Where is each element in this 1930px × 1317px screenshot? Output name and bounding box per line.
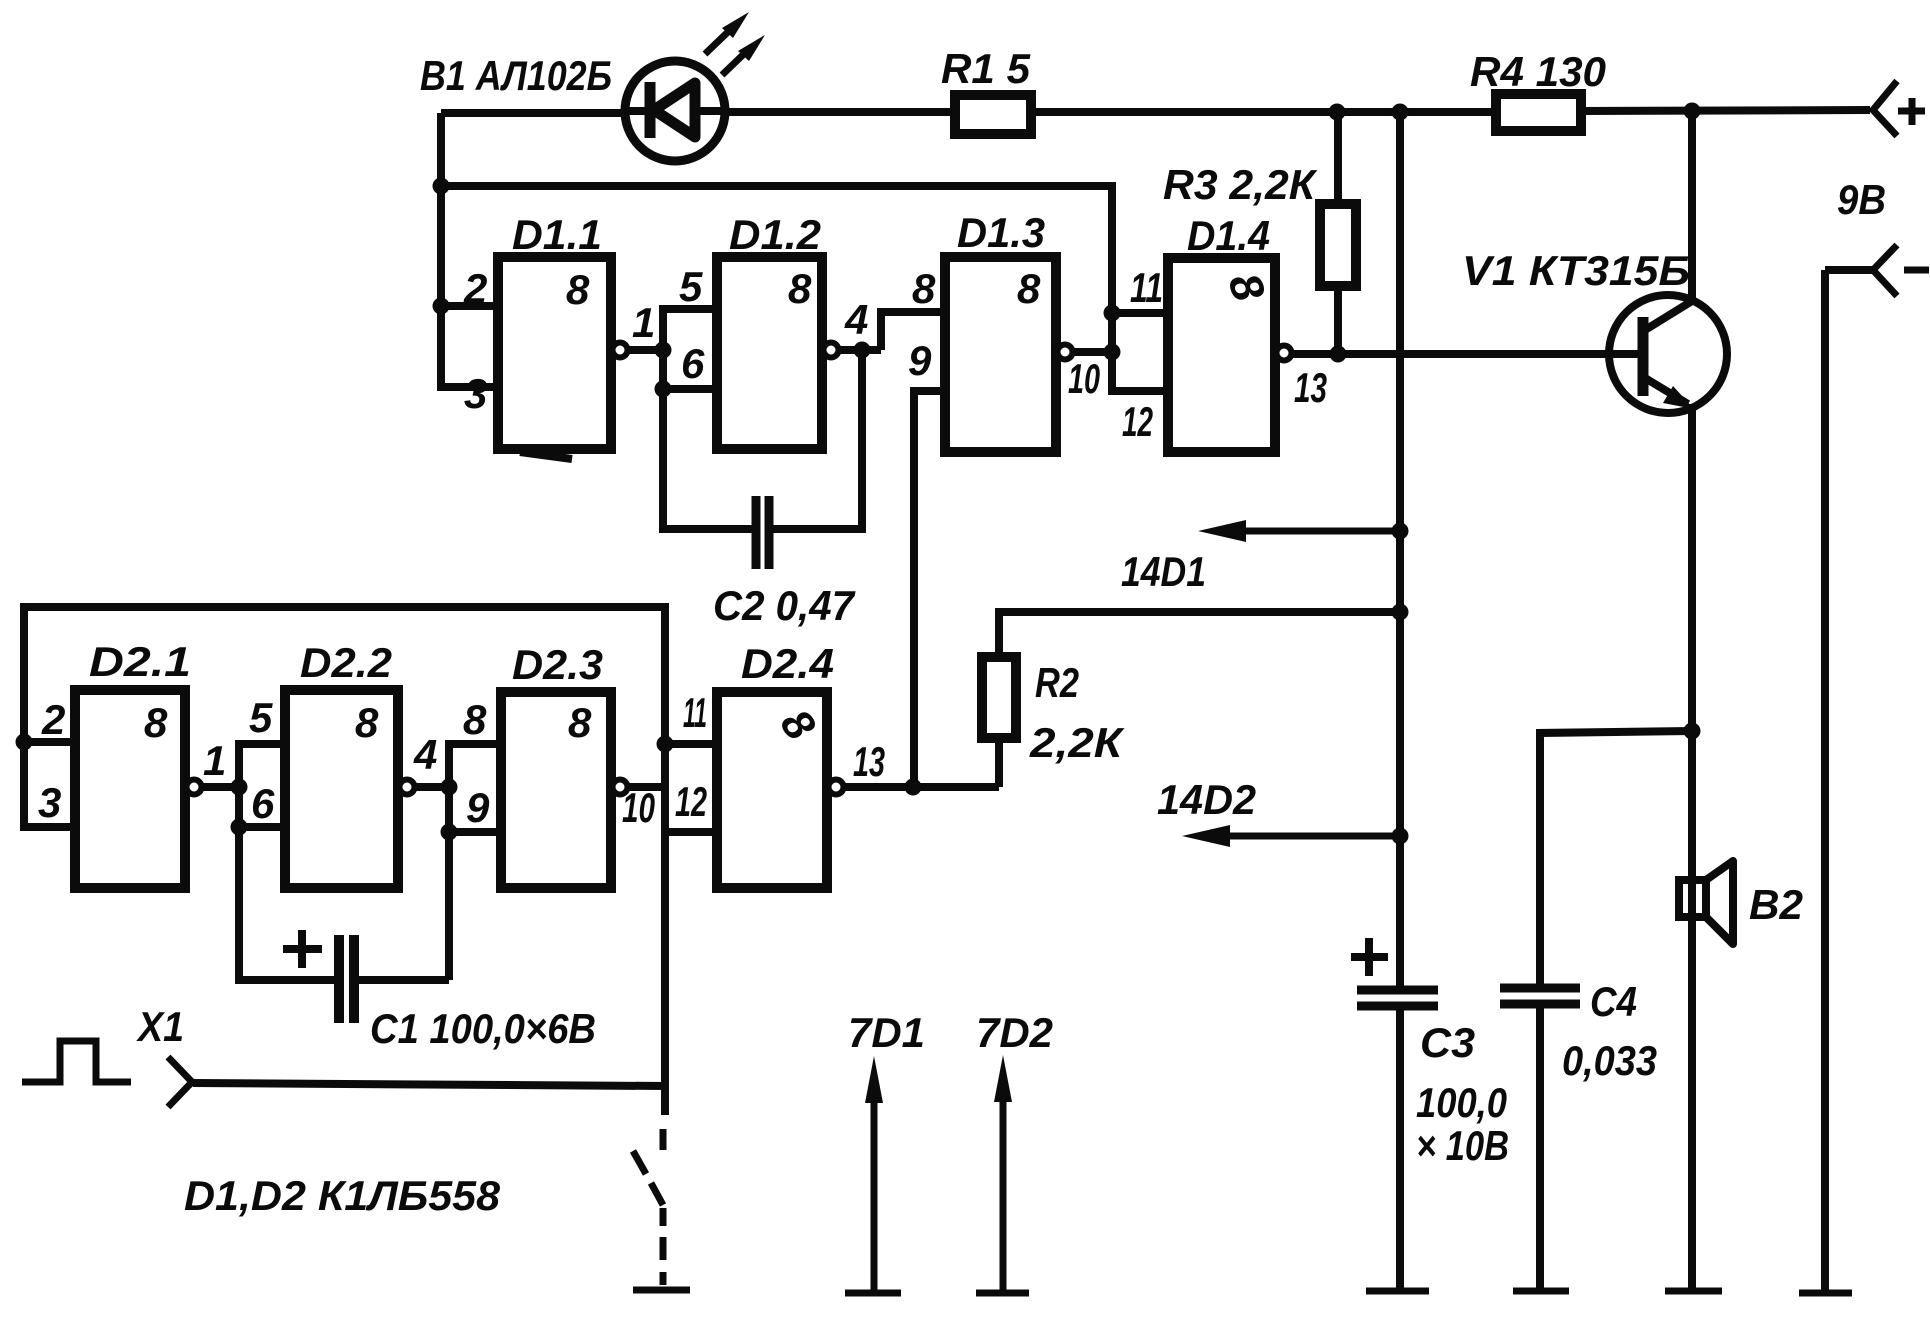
svg-text:8: 8 (566, 266, 590, 313)
LED B1 diode triangle (654, 83, 695, 137)
feedback bus D2 row with vertical to switch (24, 607, 665, 1115)
wire C2 right up to node4 (773, 350, 862, 529)
node dot R3 bottom (1330, 346, 1347, 363)
svg-text:2: 2 (41, 696, 65, 743)
svg-text:4: 4 (844, 296, 868, 343)
speaker B2 horn (1706, 861, 1733, 944)
wire C4 top to emitter line (1540, 731, 1692, 988)
bottom bar 7D2 (976, 1290, 1029, 1297)
long vertical 14D line (1396, 112, 1404, 988)
node dot R3 top (1329, 104, 1346, 121)
svg-text:100,0: 100,0 (1416, 1079, 1507, 1126)
svg-text:C4: C4 (1590, 978, 1637, 1025)
left bus D1 with pin3 stub (441, 113, 498, 387)
svg-text:9: 9 (908, 337, 932, 384)
bottom bar C4 (1513, 1288, 1569, 1295)
wire second rail to D1.4 pin 12 (441, 186, 1168, 391)
capacitor C2 plates (752, 496, 761, 569)
svg-text:9В: 9В (1837, 176, 1886, 223)
gate D2.3 (501, 692, 611, 888)
svg-text:D1,D2 К1ЛБ558: D1,D2 К1ЛБ558 (184, 1172, 501, 1219)
node dot pin6 D2 (231, 819, 248, 836)
svg-text:14D2: 14D2 (1157, 776, 1256, 823)
wire C4 bottom (1536, 1006, 1544, 1291)
node dot C4-emitter (1684, 723, 1701, 740)
svg-text:12: 12 (675, 778, 707, 825)
gate D2.1 output bubble pin 1 (187, 780, 202, 795)
wire out1 to node (629, 346, 663, 354)
wire C3 bottom (1396, 1008, 1404, 1291)
minus sign (1904, 267, 1929, 274)
wire LED to R1 (725, 108, 955, 116)
svg-text:R3 2,2К: R3 2,2К (1163, 161, 1318, 208)
svg-text:8: 8 (144, 699, 168, 746)
svg-text:7D1: 7D1 (848, 1009, 925, 1056)
gate D2.3 output bubble pin 10 (613, 780, 628, 795)
pin 6 stub D1.2 (663, 385, 717, 393)
wire R4 to plus terminal (1581, 110, 1870, 111)
wire out1 D2 to node (203, 783, 239, 791)
gate D1.3 (945, 257, 1056, 452)
svg-text:5: 5 (249, 694, 273, 741)
node dot 14D1 (1392, 523, 1409, 540)
gate D2.2 output bubble pin 4 (400, 780, 415, 795)
node dot 14D2 (1392, 828, 1409, 845)
svg-text:× 10В: × 10В (1416, 1122, 1509, 1169)
svg-text:8: 8 (463, 696, 487, 743)
pulse symbol at X1 (22, 1041, 131, 1082)
svg-text:9: 9 (466, 784, 490, 831)
svg-text:X1: X1 (136, 1003, 184, 1050)
gate D1.1 output bubble pin 1 (613, 343, 628, 358)
arrow 14D1 (1230, 528, 1400, 535)
wire node to pin5 D2.2 and down to C1 (239, 744, 336, 980)
wire through LED (627, 107, 725, 115)
svg-text:R1 5: R1 5 (941, 45, 1031, 92)
resistor R2 leads (995, 738, 1003, 787)
svg-text:C1 100,0×6В: C1 100,0×6В (370, 1005, 596, 1052)
node dot out4 (854, 342, 871, 359)
svg-text:D2.1: D2.1 (89, 638, 191, 685)
svg-text:8: 8 (912, 265, 936, 312)
wire node1 to pin5 and down to C2 (663, 309, 753, 529)
svg-text:8: 8 (568, 699, 592, 746)
plus sign (1898, 108, 1925, 115)
svg-text:6: 6 (681, 340, 705, 387)
svg-text:D2.3: D2.3 (512, 641, 603, 688)
svg-text:10: 10 (622, 784, 655, 831)
speaker B2 box (1679, 880, 1706, 917)
gate D2.1 (75, 690, 185, 888)
wire R1 to R4 (1031, 108, 1496, 116)
bottom bar 7D1 (845, 1290, 901, 1297)
node dot pin11 (1104, 305, 1121, 322)
svg-text:R4 130: R4 130 (1470, 48, 1606, 95)
svg-text:D1.2: D1.2 (729, 211, 821, 258)
capacitor C1 plus sign (283, 945, 322, 953)
switch bottom bar (633, 1287, 690, 1294)
svg-text:8: 8 (788, 265, 812, 312)
arrow 7D1 (871, 1100, 878, 1293)
LED light arrow 1 (705, 29, 731, 54)
emitter line down to speaker (1688, 404, 1696, 1291)
resistor R1 body (955, 95, 1031, 134)
node dot bus-wire2 (433, 178, 450, 195)
wire base: out13 to transistor (1293, 350, 1643, 358)
svg-text:13: 13 (853, 738, 885, 785)
pin 11 stub D1.4 (1112, 309, 1168, 317)
wire out13 D2 to R2 (845, 783, 999, 791)
svg-text:R2: R2 (1035, 659, 1079, 706)
node dot pin11 D2 (657, 736, 674, 753)
svg-text:3: 3 (464, 370, 487, 417)
wire out10 to node (1074, 348, 1112, 356)
node dot pin9 D2 (441, 824, 458, 841)
wire C1 right up to node9 (358, 976, 449, 984)
svg-text:11: 11 (683, 689, 707, 736)
svg-text:0,033: 0,033 (1562, 1037, 1657, 1084)
capacitor C3 plus sign (1351, 953, 1388, 961)
LED light arrow 2 (722, 50, 748, 75)
wire out4 D2 to node (416, 783, 449, 791)
node dot out4 D2 (441, 779, 458, 796)
node dot bus-pin2 D2 (16, 734, 33, 751)
arrow 14D2 (1215, 833, 1400, 840)
capacitor C3 plates (1357, 986, 1438, 995)
capacitor C1 plates (334, 935, 344, 1023)
gate D2.4 output bubble pin 13 (829, 780, 844, 795)
svg-text:10: 10 (1068, 355, 1100, 402)
svg-text:D1.4: D1.4 (1187, 212, 1270, 259)
LED B1 cathode bar (645, 82, 656, 138)
svg-text:D1.1: D1.1 (512, 211, 602, 258)
wire node4 to pin8 D1.3 (881, 312, 945, 350)
pin 2 stub D2.1 (24, 738, 75, 746)
svg-text:D2.4: D2.4 (741, 640, 834, 687)
transistor V1 circle (1609, 295, 1727, 413)
node dot 14D line top (1392, 104, 1409, 121)
svg-text:D1.3: D1.3 (957, 209, 1045, 256)
svg-text:2: 2 (463, 265, 487, 312)
switch dashed line (660, 1129, 667, 1150)
svg-text:1: 1 (203, 737, 226, 784)
gate D1.1 (498, 257, 611, 449)
resistor R4 body (1496, 94, 1581, 131)
connector minus chevron (1873, 245, 1897, 296)
arrow 7D2 (1000, 1099, 1007, 1293)
wire out10 D2 to vertical (629, 783, 665, 791)
node dot pin10-junction (1104, 344, 1121, 361)
svg-text:2,2К: 2,2К (1029, 719, 1126, 766)
pin 12 stub D2.4 (665, 828, 717, 836)
gate D1.3 output bubble pin 10 (1058, 345, 1073, 360)
svg-text:8: 8 (355, 699, 379, 746)
wire X1 to switch node (193, 1083, 665, 1086)
right bus bottom bar (1799, 1290, 1852, 1297)
bottom bar speaker (1665, 1288, 1722, 1295)
svg-text:C3: C3 (1420, 1019, 1475, 1066)
resistor R3 leads (1334, 112, 1342, 204)
svg-text:12: 12 (1122, 398, 1153, 445)
wire top-left from bus to LED (441, 109, 627, 117)
node dot out1 D2 (231, 779, 248, 796)
svg-text:3: 3 (38, 779, 61, 826)
node dot pin6 (655, 381, 672, 398)
capacitor C4 plates (1500, 984, 1580, 993)
svg-text:B1 АЛ102Б: B1 АЛ102Б (420, 52, 612, 99)
resistor R2 body (982, 657, 1016, 738)
pin 9 stub D2.3 (449, 828, 501, 836)
gate D1.2 output bubble pin 4 (824, 343, 839, 358)
gate D1.2 (717, 257, 822, 449)
gate D1.4 output bubble pin 13 (1277, 346, 1292, 361)
transistor V1 collector (1645, 112, 1692, 330)
right bus vertical (1821, 270, 1829, 1293)
bottom bar C3 (1366, 1288, 1429, 1295)
svg-text:V1 КТ315Б: V1 КТ315Б (1462, 247, 1690, 294)
gate D2.2 (285, 690, 398, 888)
LED B1 circle (625, 61, 725, 161)
node dot pin9-line join (905, 779, 922, 796)
wire out4 to node (840, 346, 881, 354)
scan tail under D1.1 (520, 452, 572, 459)
node dot bus-pin2 (433, 298, 450, 315)
svg-text:C2 0,47: C2 0,47 (713, 582, 856, 629)
wire node to pin8 D2.3 (449, 744, 501, 980)
pin 6 stub D2.2 (239, 823, 285, 831)
pin 2 stub D1.1 (441, 302, 498, 310)
node dot out1 (655, 342, 672, 359)
pin 11 stub D2.4 (665, 740, 717, 748)
svg-text:1: 1 (632, 299, 655, 346)
node dot R2 top (1392, 604, 1409, 621)
node dot collector top (1684, 103, 1701, 120)
svg-text:D2.2: D2.2 (300, 639, 392, 686)
svg-text:B2: B2 (1749, 881, 1803, 928)
svg-text:11: 11 (1130, 264, 1163, 311)
svg-text:5: 5 (679, 263, 703, 310)
transistor V1 base bar (1638, 317, 1649, 396)
resistor R3 body (1320, 204, 1356, 286)
svg-text:4: 4 (413, 731, 437, 778)
gate D2.4 (717, 692, 827, 888)
gate D1.4 (1168, 258, 1275, 452)
svg-text:8: 8 (1017, 265, 1041, 312)
svg-text:7D2: 7D2 (976, 1009, 1053, 1056)
svg-text:6: 6 (251, 780, 275, 827)
pin 9 stub D1.3 with long vertical to D2.4 output (914, 391, 945, 787)
connector plus chevron (1873, 81, 1897, 136)
wire minus to right bus (1825, 266, 1874, 274)
transistor V1 emitter with arrow (1645, 378, 1688, 404)
svg-text:13: 13 (1294, 364, 1327, 411)
switch lever diagonal (633, 1151, 646, 1174)
connector X1 chevron (168, 1057, 192, 1107)
svg-text:14D1: 14D1 (1121, 548, 1206, 595)
